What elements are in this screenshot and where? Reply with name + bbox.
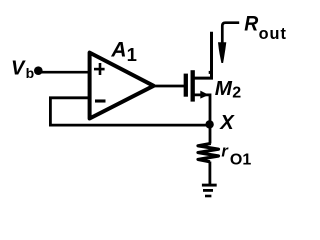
transistor M2 source arrow bbox=[200, 91, 209, 99]
ink nub on drain wire bbox=[209, 71, 211, 74]
resistor rO1 bbox=[198, 143, 219, 161]
svg-text:1: 1 bbox=[127, 44, 137, 65]
wire M2 source branch bbox=[194, 95, 210, 125]
label M2 bbox=[215, 77, 242, 102]
op-amp plus input sign bbox=[94, 63, 105, 75]
label A1 bbox=[110, 38, 136, 65]
wire feedback from node X to op-amp inverting input bbox=[50, 98, 210, 125]
Rout probe arrowhead bbox=[218, 42, 226, 63]
wire M2 drain branch bbox=[194, 32, 212, 78]
wire op-amp output to gate of M2 bbox=[153, 85, 185, 88]
svg-text:out: out bbox=[259, 25, 287, 43]
svg-text:R: R bbox=[244, 12, 258, 36]
Rout probe hook bbox=[222, 23, 239, 43]
op-amp A1 bbox=[90, 53, 154, 119]
svg-text:A: A bbox=[110, 38, 126, 61]
transistor M2 gate plate bbox=[184, 74, 188, 97]
label Rout bbox=[244, 12, 287, 43]
svg-text:M: M bbox=[215, 77, 233, 100]
svg-text:b: b bbox=[26, 65, 35, 81]
wire resistor rO1 to ground bbox=[208, 162, 211, 185]
node Vb terminal dot bbox=[34, 66, 43, 75]
label Vb bbox=[11, 58, 34, 82]
svg-text:O1: O1 bbox=[230, 151, 251, 168]
label rO1 bbox=[221, 143, 251, 169]
svg-text:X: X bbox=[219, 112, 235, 134]
svg-text:V: V bbox=[11, 58, 26, 80]
wire node X to resistor rO1 bbox=[209, 125, 212, 144]
op-amp minus input sign bbox=[95, 99, 106, 102]
svg-text:2: 2 bbox=[232, 85, 241, 102]
ground bbox=[202, 185, 217, 196]
node X junction dot bbox=[205, 120, 213, 128]
transistor M2 channel plate bbox=[191, 70, 195, 101]
wire Vb to op-amp noninverting input bbox=[38, 71, 89, 74]
